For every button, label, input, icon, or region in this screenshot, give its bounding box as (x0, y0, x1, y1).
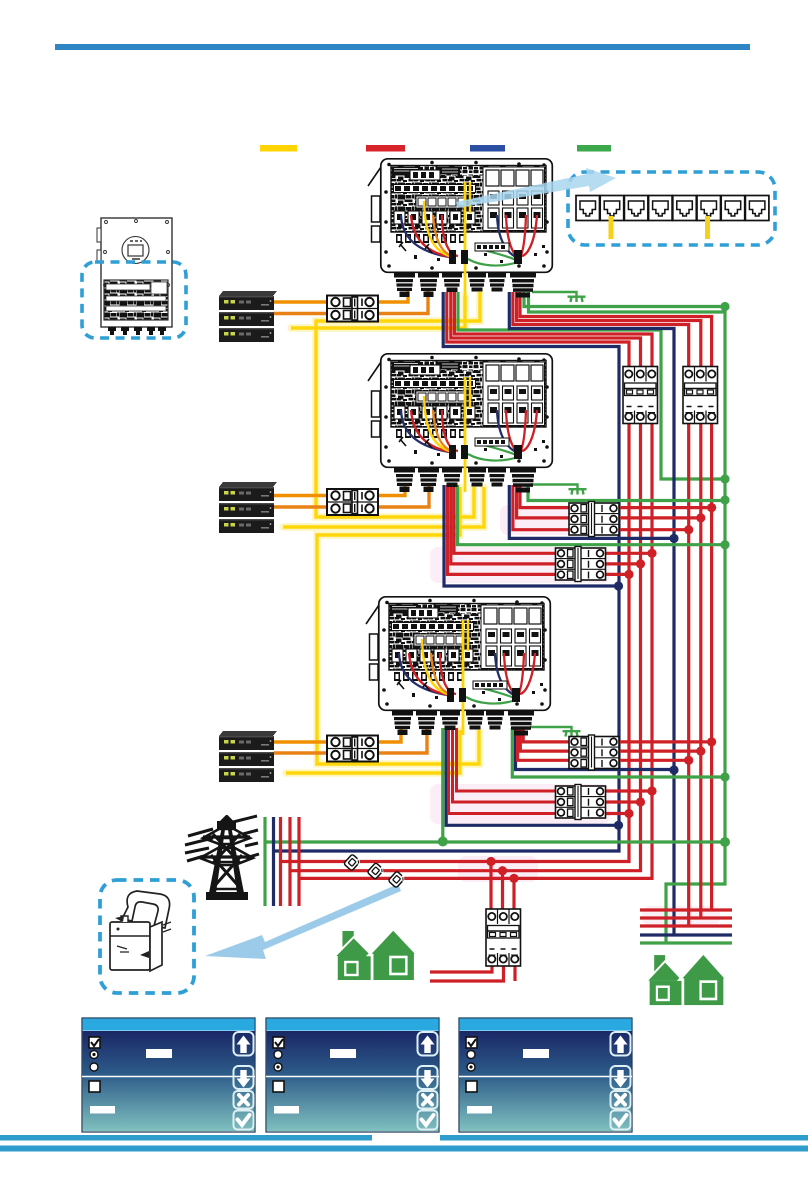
yellow parallel cable plug in port 6 (705, 216, 710, 239)
wire: grid bank output L2 red down to grid ladder (699, 422, 702, 918)
main grid breaker (3-pole vertical) (486, 909, 521, 966)
wire: inverter3 grid ground green (512, 728, 725, 777)
wire: tower neutral blue vertical (272, 817, 275, 906)
wire: inverter1 load neutral (blue) to neutral bus (274, 292, 620, 851)
wire: section3 grid breaker outputs to grid bus (615, 742, 712, 760)
wire: orange battery1 breaker to inverter1 BAT+ (376, 290, 408, 302)
bottom rule upper-right segment (440, 1135, 808, 1141)
battery stack 2 (219, 482, 277, 533)
wire: inverter2 load L1 red to section2 load breaker (454, 485, 560, 553)
dashed zoom box: CT current transformer (100, 880, 194, 993)
wire: inverter1 second ground green (529, 292, 724, 312)
wire: inverter3 grid L2 red to section3 grid breaker (520, 728, 573, 751)
wire: inverter2 grid neutral blue (509, 485, 674, 538)
wire: orange battery3 breaker to inverter3 BAT+ (376, 728, 401, 742)
wire: inverter3 load ground green to backup PE (441, 728, 444, 842)
wire: grid breaker feed L2 (501, 871, 504, 911)
wire: grid breaker feed L1 (489, 862, 492, 912)
wire: section2 grid breaker outputs to grid bus (615, 508, 712, 530)
wire: grid breaker feed L3 (512, 878, 515, 911)
dashed zoom box: inverter wiring terminal area (82, 262, 186, 338)
wire: inverter3 load L3 red to section3 load breaker (449, 728, 561, 814)
wire: inverter3 grid L3 red to section3 grid breaker (518, 728, 573, 760)
legend red line cable (366, 145, 405, 152)
junction dots blue (614, 534, 679, 830)
RJ45 port 7 (721, 196, 745, 221)
wire: inverter2 load L3 red to section2 load breaker (448, 485, 561, 574)
wire: load bank output L3 red to backup bus (299, 422, 652, 878)
pink highlight glows (430, 505, 720, 926)
wire: inverter2 load L2 red to section2 load breaker (451, 485, 560, 564)
wire: orange battery1 breaker to inverter1 BAT- (376, 290, 428, 314)
wire: orange battery2 positive to breaker (272, 494, 329, 497)
page top rule (55, 44, 750, 50)
bottom rule upper-left segment (0, 1135, 372, 1141)
wire: inverter3 grid neutral blue (516, 728, 675, 770)
wire: orange battery2 breaker to inverter2 BAT+ (376, 485, 405, 496)
wire: inverter2 grid ground green (528, 485, 725, 501)
wire: grid breaker output to backup house L1 (430, 960, 492, 972)
wire: grid ladder rung ground green (640, 941, 732, 944)
section2 load breaker (3-row) (556, 547, 606, 582)
RJ45 port 1 (576, 196, 600, 221)
CT sensor clamp on L3 (388, 870, 406, 888)
wire: tower L1 red vertical (279, 817, 282, 906)
inverter front view (left) (97, 218, 172, 335)
wire: inverter1 grid neutral blue to grid neutral bus (509, 292, 674, 935)
wire: inverter1 grid ground green to PE bus (524, 292, 725, 307)
legend blue neutral cable (470, 145, 505, 152)
RJ45 port 8 (745, 196, 769, 221)
wire: inverter1 load L3 red to load breaker bank (454, 292, 652, 368)
junction dots red (486, 503, 716, 883)
battery breaker 2 (2-pole DC) (327, 489, 378, 515)
wire: orange battery3 positive to breaker (274, 740, 329, 743)
wire: tower L2 red vertical (288, 817, 291, 906)
wire: inverter3 load neutral blue (446, 728, 618, 825)
RJ45 port 4 (649, 196, 673, 221)
arrow to CT zoom box (205, 884, 401, 959)
wire: green PE bus vertical right (666, 307, 725, 944)
ground symbol section3 (530, 727, 581, 737)
wire: tower L3 red vertical (297, 817, 300, 906)
wire: grid breaker output stub L3 (513, 960, 516, 981)
wire: inverter1 grid L2 red to grid breaker bank (517, 292, 701, 368)
wire: grid bank output L1 red down to grid ladder (687, 422, 690, 926)
wire: yellow parallel comm inverter1-inverter2 (316, 292, 480, 517)
wire: orange battery1 negative to breaker (274, 312, 329, 315)
wire: inverter1 load ground green (458, 292, 725, 479)
wire: orange battery2 negative to breaker (272, 505, 329, 508)
wire: section2 load breaker outputs to load bus (600, 553, 652, 574)
load side breaker bank (3-pole) (623, 367, 658, 424)
backup loads house (334, 929, 418, 980)
wire: grid ladder rung red L1 (640, 924, 732, 927)
RJ45 port 5 (673, 196, 697, 221)
junction dots green (438, 302, 730, 847)
wire: grid ladder rung red L3 (640, 908, 732, 911)
wire: inverter2 grid L1 red to section2 grid breaker (520, 485, 573, 508)
LCD screen 1 (82, 1018, 255, 1132)
inverter 2 (internal view) (368, 354, 552, 493)
wire: grid ladder rung red L2 (640, 916, 732, 919)
CT sensor clamp on L1 (344, 853, 362, 871)
wire: grid breaker output to backup house L2 (430, 960, 504, 981)
wire: yellow comm inverter2 to battery2 BMS (283, 487, 484, 527)
ground symbol section2 (531, 485, 587, 495)
wire: tower green PE vertical (263, 817, 266, 906)
grid loads house (646, 953, 727, 1005)
arrow to parallel comm board zoom (456, 168, 616, 208)
legend yellow battery-comm cable (260, 145, 297, 152)
battery stack 1 (219, 291, 277, 342)
wire: yellow parallel comm inverter2-inverter3 (317, 487, 479, 764)
wire: load bank output L2 red to backup bus (290, 422, 641, 871)
wire: inverter3 load L2 red to section3 load breaker (453, 728, 561, 802)
RJ45 port 6 (697, 196, 721, 221)
legend green ground cable (577, 145, 611, 152)
yellow parallel cable plug in port 2 (609, 216, 614, 239)
wire: inverter2 grid L2 red to section2 grid breaker (517, 485, 573, 518)
wire: inverter1 grid L3 red to grid breaker bank (520, 292, 712, 368)
wire: inverter3 load L1 red to section3 load breaker (457, 728, 561, 791)
inverter 3 (internal view) (366, 597, 550, 736)
yellow comm wire glow (283, 292, 484, 773)
wire: yellow comm inverter1 to battery1 BMS (291, 296, 465, 328)
RJ45 port 2 (600, 196, 624, 221)
wire: section3 load breaker outputs to load bus (600, 791, 652, 814)
wire: inverter2 load neutral blue (444, 485, 619, 586)
wire: inverter1 grid L1 red to grid breaker bank (513, 292, 689, 368)
battery breaker 3 (2-pole DC) (327, 736, 378, 762)
wire: orange battery3 breaker to inverter3 BAT- (376, 728, 427, 753)
LCD screen 2 (266, 1018, 439, 1132)
wire: inverter2 load ground green (458, 485, 726, 545)
wire: orange battery3 negative to breaker (274, 751, 329, 754)
wire: inverter3 grid L1 red to section3 grid breaker (523, 728, 573, 742)
battery breaker 1 (2-pole DC) (327, 296, 378, 322)
wire: grid ladder rung neutral blue (640, 933, 732, 936)
wire: grid bank output L3 red down to grid ladder (710, 422, 713, 910)
CT current transformer drawing (110, 891, 171, 971)
dashed zoom box: parallel communication ports (8x RJ45) (568, 172, 775, 245)
bottom rule lower full width (0, 1146, 808, 1152)
LCD screen 3 (459, 1018, 632, 1132)
wire: green PE to utility tower (265, 840, 725, 843)
inverter 1 (internal view, parallel master) (368, 159, 552, 298)
wire: inverter1 load L2 red to load breaker bank (451, 292, 641, 368)
wire: yellow comm inverter3 to battery3 BMS (286, 730, 460, 773)
battery stack 3 (219, 731, 277, 782)
wire: load bank output L1 red to backup bus (281, 422, 630, 862)
grid side breaker bank (3-pole) (683, 367, 718, 424)
utility grid tower (185, 815, 259, 900)
wire: inverter2 grid L3 red to section2 grid breaker (513, 485, 573, 530)
wire: inverter1 load L1 red to load breaker bank (447, 292, 629, 368)
ground symbol section1 (532, 292, 586, 302)
wire: orange battery2 breaker to inverter2 BAT- (376, 485, 429, 507)
section3 grid breaker (3-row) (569, 735, 619, 770)
RJ45 port 3 (624, 196, 648, 221)
wire: orange battery1 positive to breaker (274, 300, 329, 303)
CT sensor clamp on L2 (367, 862, 385, 880)
section2 grid breaker (3-row) (569, 502, 619, 537)
section3 load breaker (3-row) (556, 785, 606, 820)
